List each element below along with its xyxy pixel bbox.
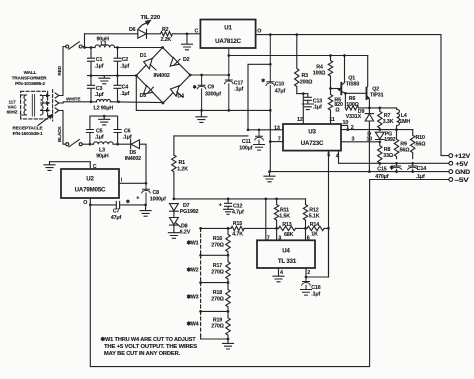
- svg-text:UA723C: UA723C: [301, 140, 324, 147]
- svg-text:.1μf: .1μf: [123, 135, 132, 141]
- node at U1 input: [186, 32, 189, 35]
- output terminal GND: [449, 170, 453, 174]
- svg-text:R10: R10: [416, 135, 425, 141]
- svg-text:.1μf: .1μf: [95, 92, 104, 98]
- wire RED riser to upper switch: [61, 47, 65, 96]
- capacitor C15 470uf: [392, 163, 402, 171]
- wire riser to D6 line: [84, 34, 86, 48]
- svg-text:D7: D7: [183, 203, 190, 209]
- svg-text:.1μf: .1μf: [416, 174, 425, 180]
- svg-text:.1μf: .1μf: [313, 104, 322, 110]
- +12V output rail: [256, 35, 449, 156]
- bridge rectifier diamond: [136, 48, 190, 104]
- receptacle dashed separator: [52, 90, 54, 122]
- wire BLACK riser to lower switch: [61, 111, 65, 145]
- emitter rail: [369, 107, 397, 109]
- U2 common pin ground: [44, 162, 90, 171]
- svg-text:C8: C8: [153, 190, 160, 196]
- svg-text:U1: U1: [224, 24, 232, 31]
- U1 input column with C17: [225, 48, 234, 110]
- diode D3: [143, 86, 152, 95]
- svg-text:13: 13: [274, 126, 280, 132]
- capacitor C16 .1uf: [301, 277, 312, 295]
- svg-text:R15: R15: [233, 221, 242, 227]
- svg-text:100μf: 100μf: [239, 145, 252, 151]
- comparator U4 box: [257, 240, 315, 268]
- svg-text:RECEPTACLE: RECEPTACLE: [13, 125, 43, 130]
- resistor R9 .56ohm: [394, 130, 398, 159]
- svg-text:U2: U2: [86, 175, 94, 182]
- receptacle contacts: [55, 93, 61, 98]
- svg-text:C16: C16: [311, 285, 320, 291]
- svg-text:47μf: 47μf: [275, 88, 286, 94]
- svg-text:BLACK: BLACK: [57, 126, 62, 142]
- resistor R7 3.3K: [378, 108, 382, 130]
- svg-text:.1μf: .1μf: [120, 91, 129, 97]
- svg-text:L1: L1: [101, 41, 107, 47]
- svg-text:O: O: [257, 28, 261, 34]
- jumper wire W3 dashed: [200, 283, 202, 312]
- -5V return loop: [90, 180, 449, 367]
- diode D7 PG1992: [170, 204, 179, 218]
- svg-text:3: 3: [278, 236, 281, 242]
- svg-text:✱W1: ✱W1: [187, 240, 199, 246]
- svg-text:GND: GND: [455, 169, 471, 176]
- capacitor C2 .1uf: [114, 48, 121, 76]
- svg-text:47μf: 47μf: [111, 215, 122, 221]
- pin4 ground: [273, 268, 284, 282]
- adjust ladder top rung: [201, 227, 228, 229]
- svg-text:4.7K: 4.7K: [232, 232, 243, 238]
- svg-text:+: +: [219, 203, 222, 209]
- U3 pin13 wire: [248, 129, 283, 131]
- svg-text:R3: R3: [302, 73, 309, 79]
- wire L2 to bridge bottom corner: [111, 101, 164, 104]
- svg-text:C: C: [195, 28, 199, 34]
- svg-text:PG1992: PG1992: [180, 209, 199, 215]
- resistor R11 1.5K: [274, 199, 278, 229]
- bridge left corner drop to ground bus: [135, 76, 137, 111]
- svg-text:68K: 68K: [284, 232, 294, 238]
- svg-text:D3: D3: [140, 93, 147, 99]
- svg-text:D8: D8: [181, 224, 188, 230]
- capacitor C1 .1uf: [88, 48, 95, 76]
- svg-text:90μH: 90μH: [96, 154, 109, 160]
- svg-text:6.2V: 6.2V: [180, 230, 191, 236]
- svg-text:270Ω: 270Ω: [211, 297, 224, 303]
- svg-text:UA7812C: UA7812C: [215, 38, 241, 45]
- capacitor C4 .1uf: [114, 76, 121, 102]
- diode D2: [170, 57, 179, 66]
- varistor D9 V331X: [365, 108, 373, 172]
- svg-text:C14: C14: [417, 166, 426, 172]
- svg-text:.1μf: .1μf: [120, 64, 129, 70]
- svg-text:.56Ω: .56Ω: [414, 141, 426, 147]
- svg-text:7: 7: [267, 235, 270, 241]
- svg-text:+12V: +12V: [455, 153, 472, 160]
- pin3 riser: [276, 228, 278, 240]
- svg-text:5.1K: 5.1K: [309, 213, 320, 219]
- svg-text:10: 10: [367, 136, 373, 142]
- svg-text:C1: C1: [96, 57, 103, 63]
- ground below C8: [140, 205, 151, 216]
- ground at U1 common pin: [182, 34, 193, 50]
- svg-text:D1: D1: [140, 53, 147, 59]
- sense divider wire: [228, 227, 329, 229]
- resistor R13 68K: [279, 226, 296, 230]
- regulator U2 box: [61, 169, 119, 198]
- svg-text:.56Ω: .56Ω: [398, 147, 410, 153]
- +5V rail from U3 pin4: [339, 151, 449, 164]
- capacitor C12 4.7uf: [224, 199, 233, 214]
- capacitor C7 47uf in output line: [90, 201, 145, 208]
- svg-text:1.5K: 1.5K: [279, 213, 290, 219]
- svg-text:Ω: Ω: [335, 107, 340, 113]
- svg-text:✱: ✱: [261, 78, 266, 83]
- svg-text:IN4002: IN4002: [125, 156, 141, 162]
- resistor R17 270ohm: [226, 255, 230, 282]
- primary leads: [21, 95, 27, 115]
- svg-text:C15: C15: [377, 166, 386, 172]
- svg-text:P/N-1501539-1: P/N-1501539-1: [13, 131, 43, 136]
- inductor L2 90uH: [97, 99, 111, 101]
- capacitor C8 1000uf: [142, 183, 151, 205]
- ground at lower filter: [99, 116, 110, 125]
- svg-text:D4: D4: [177, 94, 184, 100]
- svg-text:270Ω: 270Ω: [211, 324, 224, 330]
- svg-text:V331X: V331X: [346, 114, 362, 120]
- diode D5 IN4002: [131, 140, 140, 149]
- svg-text:33Ω: 33Ω: [383, 153, 394, 159]
- wire lower switch to L3: [82, 143, 93, 145]
- resistor R15 4.7K: [231, 226, 244, 230]
- wire WHITE center tap to L2: [61, 102, 96, 103]
- svg-text:R18: R18: [213, 290, 222, 296]
- svg-text:P/N-1015985-2: P/N-1015985-2: [15, 81, 45, 86]
- svg-text:TIP31: TIP31: [370, 93, 384, 99]
- GND output rail: [270, 171, 449, 173]
- svg-text:TIS93: TIS93: [346, 82, 360, 88]
- svg-text:R19: R19: [213, 317, 222, 323]
- ground at filter mid: [99, 76, 110, 84]
- pin2 wire and C16 node: [306, 228, 329, 277]
- node C2 top: [116, 46, 119, 49]
- svg-text:2: 2: [307, 270, 310, 276]
- mid reference wire: [174, 198, 306, 200]
- U3 pin5 drop: [328, 151, 330, 277]
- svg-text:C2: C2: [122, 57, 129, 63]
- svg-text:1000μf: 1000μf: [150, 196, 166, 202]
- transistor Q1 TIS93: [331, 88, 341, 90]
- svg-text:R14: R14: [310, 222, 319, 228]
- raw supply rail: [229, 55, 368, 57]
- svg-text:TRANSFORMER: TRANSFORMER: [12, 75, 48, 80]
- svg-text:C7: C7: [113, 209, 120, 215]
- svg-text:R2: R2: [162, 27, 169, 33]
- svg-text:IN4002: IN4002: [154, 73, 170, 79]
- node junction at switch output: [83, 46, 86, 49]
- wall transformer T1 dashed box: [21, 91, 48, 119]
- svg-text:1992: 1992: [384, 137, 395, 143]
- wire L1 to bridge top: [115, 47, 163, 49]
- resistor R8 33ohm: [378, 142, 382, 165]
- ground below D8: [168, 233, 179, 239]
- svg-text:C11: C11: [242, 139, 251, 145]
- wire switch to L1 node: [82, 47, 91, 48]
- secondary plug pin arrows: [41, 96, 47, 111]
- node C1 top: [90, 46, 93, 49]
- diode D10 PG1992: [375, 132, 384, 139]
- svg-text:✱W1 THRU W4 ARE CUT TO ADJUST: ✱W1 THRU W4 ARE CUT TO ADJUST: [101, 336, 197, 343]
- svg-text:✱W3: ✱W3: [187, 294, 199, 300]
- resistor R12 5.1K: [303, 199, 307, 229]
- svg-text:WALL: WALL: [24, 70, 37, 75]
- capacitor C13 .1uf: [302, 94, 313, 110]
- lower filter top node: [90, 116, 118, 129]
- svg-text:✱W4: ✱W4: [187, 321, 199, 327]
- svg-text:C12: C12: [233, 203, 242, 209]
- output terminal +5V: [449, 161, 453, 165]
- pin6 riser: [305, 228, 307, 240]
- U3 pin7 wire to gnd spine: [269, 110, 271, 171]
- resistor R5 820ohm: [328, 89, 332, 125]
- capacitor C14 .1uf: [408, 163, 418, 171]
- stub to R1/pin13 branch: [248, 64, 270, 130]
- svg-text:60HZ: 60HZ: [7, 110, 18, 115]
- LED D6 TIL220: [138, 29, 147, 38]
- svg-text:1.2K: 1.2K: [177, 167, 188, 173]
- capacitor C3 .1uf: [88, 76, 95, 102]
- C10 column from +12V: [266, 35, 275, 111]
- wire bridge+ to C9 and U1 input column: [190, 74, 229, 76]
- LED light arrow: [139, 23, 147, 29]
- resistor R18 270ohm: [226, 283, 230, 311]
- transistor Q2 TIP31: [366, 88, 368, 100]
- svg-text:O: O: [83, 200, 87, 206]
- ground bus rail: [136, 109, 270, 111]
- inductor L4 1MH: [397, 108, 400, 130]
- inductor L1 90uH: [95, 45, 115, 48]
- svg-text:12: 12: [297, 117, 303, 123]
- svg-text:+: +: [136, 195, 139, 201]
- svg-text:U3: U3: [308, 129, 316, 136]
- wire D6 line left: [85, 33, 138, 35]
- svg-text:R16: R16: [213, 236, 222, 242]
- transformer secondary winding: [41, 95, 44, 115]
- inductor L3 90uH: [93, 142, 113, 144]
- svg-text:TIL 220: TIL 220: [141, 15, 161, 21]
- pin10 stub: [341, 125, 348, 129]
- svg-text:7: 7: [278, 136, 281, 142]
- capacitor C9 3300uf: [197, 75, 206, 110]
- svg-text:270Ω: 270Ω: [211, 269, 224, 275]
- svg-text:100Ω: 100Ω: [346, 102, 359, 108]
- svg-text:200Ω: 200Ω: [300, 80, 313, 86]
- ground below ladder: [223, 339, 234, 349]
- ground symbol on bus: [196, 110, 207, 122]
- wire L3 to D5: [113, 143, 130, 145]
- jumper wire W1 dashed: [200, 228, 202, 255]
- svg-text:D2: D2: [183, 57, 190, 63]
- resistor R10 .56ohm: [411, 130, 415, 159]
- svg-text:3.3K: 3.3K: [383, 119, 394, 125]
- switch S1a upper: [66, 45, 69, 48]
- jumper wire W2 dashed: [200, 255, 202, 282]
- svg-text:THE +5 VOLT OUTPUT. THE WIRES: THE +5 VOLT OUTPUT. THE WIRES: [104, 344, 197, 350]
- receptacle callout arrow: [38, 116, 51, 126]
- wire branch to R1: [174, 136, 248, 155]
- svg-text:.1μf: .1μf: [311, 292, 320, 298]
- svg-text:C10: C10: [275, 82, 284, 88]
- svg-text:UA79M05C: UA79M05C: [75, 186, 106, 193]
- jumper wire W4 dashed: [200, 311, 202, 336]
- U3 pin2 wire: [341, 129, 413, 131]
- resistor R1 1.2K: [172, 155, 176, 199]
- svg-text:100Ω: 100Ω: [313, 70, 326, 76]
- svg-text:.1μf: .1μf: [95, 135, 104, 141]
- svg-text:4.7μf: 4.7μf: [232, 210, 244, 216]
- capacitor C11 100pf: [254, 130, 265, 150]
- svg-text:L2 90μH: L2 90μH: [94, 105, 114, 111]
- resistor R16 270ohm: [226, 228, 230, 255]
- svg-text:470μf: 470μf: [375, 174, 388, 180]
- svg-text:3300μf: 3300μf: [205, 91, 221, 97]
- svg-text:✱: ✱: [126, 199, 131, 204]
- wire R3 bottom to pin12 and C13: [297, 93, 308, 95]
- resistor R4 100ohm: [328, 56, 332, 89]
- wire L1 input row: [85, 47, 96, 49]
- regulator U1 box: [200, 20, 255, 49]
- rail junctions: [329, 54, 332, 57]
- diode D1: [144, 58, 153, 68]
- svg-text:RED: RED: [57, 65, 62, 75]
- svg-text:.1μf: .1μf: [95, 64, 104, 70]
- capacitor C6 .1uf: [114, 130, 121, 145]
- U4 pin7 riser: [265, 199, 267, 240]
- wire D5 to U2 input node: [119, 144, 146, 183]
- svg-text:U4: U4: [282, 247, 290, 254]
- svg-text:2.2K: 2.2K: [161, 37, 172, 43]
- wire Q1 emitter to Q2 base: [345, 92, 365, 94]
- resistor R14 1K: [307, 226, 324, 230]
- GND junction and symbol: [268, 170, 271, 173]
- svg-text:+5V: +5V: [456, 161, 470, 168]
- svg-text:1K: 1K: [311, 232, 318, 238]
- svg-text:.1μf: .1μf: [234, 87, 243, 93]
- svg-text:–5V: –5V: [455, 177, 470, 184]
- svg-text:R1: R1: [179, 160, 186, 166]
- svg-text:R17: R17: [213, 263, 222, 269]
- svg-text:TL 331: TL 331: [278, 258, 297, 265]
- U3 pin3 wire: [341, 141, 380, 143]
- zener D8 6.2V: [170, 218, 181, 233]
- regulator U3 box: [283, 124, 341, 151]
- output terminal -5V: [449, 178, 453, 182]
- transformer core: [32, 95, 34, 117]
- svg-text:4: 4: [280, 270, 283, 276]
- resistor R3 200ohm: [295, 35, 299, 94]
- resistor R19 270ohm: [226, 311, 230, 338]
- svg-text:270Ω: 270Ω: [211, 242, 224, 248]
- svg-text:✱W2: ✱W2: [187, 267, 199, 273]
- transformer primary winding: [24, 95, 27, 115]
- svg-text:C: C: [93, 164, 97, 170]
- resistor R2 2.2K: [147, 32, 188, 36]
- svg-text:R13: R13: [282, 222, 291, 228]
- output terminal +12V: [449, 154, 453, 158]
- svg-text:D6: D6: [129, 27, 136, 33]
- svg-text:6: 6: [307, 235, 310, 241]
- svg-text:C17: C17: [234, 80, 243, 86]
- svg-text:1MH: 1MH: [399, 119, 410, 125]
- capacitor C5 .1uf: [86, 130, 93, 145]
- U2 output node: [89, 198, 91, 205]
- svg-text:C9: C9: [208, 85, 215, 91]
- svg-text:I: I: [121, 177, 123, 183]
- wire filter mid node: [88, 75, 137, 77]
- switch S1b lower: [66, 143, 69, 146]
- diode D4: [170, 86, 179, 96]
- svg-text:MAY BE CUT IN ANY ORDER.: MAY BE CUT IN ANY ORDER.: [104, 351, 181, 357]
- svg-text:WHITE: WHITE: [66, 96, 80, 101]
- svg-text:C4: C4: [122, 85, 129, 91]
- resistor R6 100ohm: [345, 93, 368, 110]
